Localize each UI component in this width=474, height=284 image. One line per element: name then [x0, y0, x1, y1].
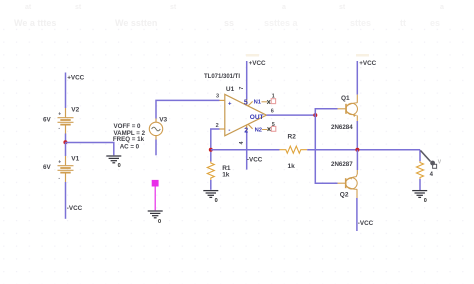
wire Q2 emitter [356, 150, 358, 170]
svg-text:2N6287: 2N6287 [331, 161, 353, 168]
svg-text:V1: V1 [71, 156, 79, 163]
wire load corner [419, 150, 421, 162]
svg-text:-VCC: -VCC [358, 220, 374, 227]
svg-text:5: 5 [272, 122, 275, 128]
pin N1 unconnected marker [262, 101, 268, 103]
svg-text:a: a [440, 4, 444, 11]
ground 0 (R1) [203, 191, 218, 198]
pin 7 [246, 99, 248, 105]
node output junction [313, 113, 317, 117]
svg-text:+: + [58, 160, 61, 166]
faint watermark row 1 [25, 4, 444, 11]
faint smudge above op-amp VCC [246, 54, 259, 57]
wire Rload to ground [419, 179, 421, 190]
wire left rail top [65, 73, 67, 109]
ground 0 (V3) [148, 211, 163, 218]
wire feedback main line [211, 149, 280, 151]
svg-text:2N6284: 2N6284 [331, 124, 353, 131]
svg-text:2: 2 [244, 127, 248, 134]
op-amp U1 [204, 74, 266, 136]
svg-text:1: 1 [272, 94, 275, 100]
node R1 top junction [209, 148, 213, 152]
wire opamp out to bases [266, 114, 315, 116]
svg-text:N1: N1 [254, 100, 262, 106]
svg-text:Q1: Q1 [341, 95, 350, 102]
pin 2 [220, 128, 225, 130]
svg-text:V2: V2 [71, 106, 79, 113]
svg-text:TL071/301/TI: TL071/301/TI [204, 74, 240, 80]
svg-text:1k: 1k [222, 172, 230, 179]
svg-text:a: a [282, 4, 286, 11]
svg-text:6: 6 [271, 108, 274, 114]
faint smudge above Q1 VCC [356, 54, 369, 57]
pin 3 [220, 99, 225, 101]
svg-text:5: 5 [244, 100, 248, 107]
svg-text:st: st [339, 4, 346, 11]
resistor R2 [280, 134, 308, 170]
faint watermark row 2 [14, 18, 234, 28]
wire left rail bottom [65, 182, 67, 219]
svg-text:ss: ss [224, 18, 234, 28]
transistor Q1 [331, 95, 357, 131]
wire base rail [315, 109, 337, 183]
svg-text:+VCC: +VCC [359, 60, 376, 67]
pin 4 [246, 124, 248, 131]
pin N2 stub [248, 124, 253, 129]
svg-text:R2: R2 [288, 134, 297, 141]
svg-text:V3: V3 [159, 116, 167, 123]
wire R2 to load [307, 149, 420, 151]
pin N2 unconnected marker [262, 129, 267, 131]
svg-text:-: - [228, 128, 230, 134]
wire V3 top to opamp pin3 [156, 100, 220, 118]
source V3 [149, 116, 167, 139]
svg-text:N2: N2 [255, 128, 262, 134]
battery V1 [43, 156, 80, 183]
resistor R1 [207, 150, 231, 190]
wire magenta to ground [154, 187, 156, 211]
wire Q1 emitter [356, 115, 358, 121]
svg-text:0: 0 [158, 219, 161, 225]
pin N1 stub [248, 101, 253, 106]
svg-text:+VCC: +VCC [249, 60, 266, 67]
resistor Rload [417, 161, 424, 179]
svg-text:0: 0 [424, 198, 427, 204]
svg-text:OUT: OUT [250, 114, 264, 121]
svg-text:-VCC: -VCC [247, 157, 263, 164]
ground 0 (load) [412, 191, 427, 198]
svg-text:2: 2 [216, 123, 219, 129]
probe marker V [421, 151, 442, 179]
svg-text:We sstten: We sstten [115, 18, 157, 28]
svg-text:U1: U1 [226, 86, 235, 93]
svg-text:at: at [25, 4, 32, 11]
svg-text:+: + [228, 101, 232, 107]
wire V2 to junction [65, 134, 67, 143]
svg-text:6V: 6V [43, 164, 52, 171]
battery V2 [43, 106, 80, 133]
svg-text:FREQ = 1k: FREQ = 1k [113, 136, 145, 143]
V3 params [113, 123, 146, 150]
svg-text:+VCC: +VCC [67, 75, 84, 82]
wire mid to ground [66, 143, 114, 156]
ground 0 (left) [106, 156, 121, 163]
power +VCC (left rail) [67, 75, 84, 82]
wire +VCC to pin7 [246, 61, 248, 99]
svg-text:+: + [58, 112, 61, 118]
svg-text:0: 0 [118, 163, 121, 169]
svg-text:ssttes a: ssttes a [264, 18, 299, 28]
svg-text:-VCC: -VCC [67, 205, 83, 212]
svg-text:sttes: sttes [350, 18, 371, 28]
svg-text:AC = 0: AC = 0 [120, 143, 140, 150]
node left mid junction [63, 140, 67, 144]
wire Q1 collector [356, 61, 358, 95]
transistor Q2 [331, 161, 357, 198]
wire pin4 to -VCC [246, 131, 248, 170]
svg-text:Q2: Q2 [340, 191, 349, 198]
svg-text:3: 3 [216, 94, 219, 100]
svg-text:st: st [75, 4, 82, 11]
net stub magenta marker [152, 180, 159, 187]
wire Q2 collector [356, 189, 358, 198]
svg-text:1k: 1k [288, 163, 296, 170]
svg-text:6V: 6V [43, 117, 52, 124]
svg-text:es: es [430, 18, 440, 28]
svg-text:0: 0 [215, 198, 218, 204]
wire pin2 to R1 junction [211, 129, 220, 150]
node emitters junction [355, 148, 359, 152]
svg-text:st: st [170, 4, 177, 11]
svg-text:7: 7 [239, 87, 245, 90]
svg-text:We a tttes: We a tttes [14, 18, 56, 28]
wire junction to V1 [65, 142, 67, 156]
wire V3 bottom stub [155, 140, 157, 156]
svg-text:tt: tt [400, 18, 406, 28]
